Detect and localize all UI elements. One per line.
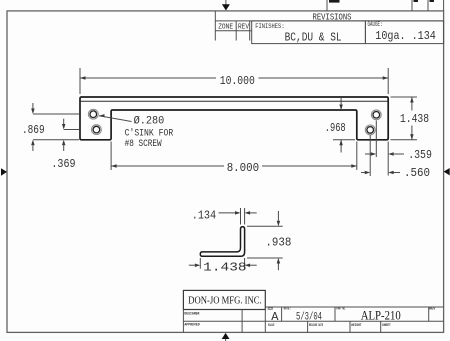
svg-text:8.000: 8.000 xyxy=(227,161,259,175)
countersunk hole right bottom xyxy=(365,125,375,135)
dimension 8.000 xyxy=(111,142,357,171)
dimension .560 right xyxy=(361,135,400,176)
svg-text:Ø.280: Ø.280 xyxy=(134,115,165,127)
svg-text:SHEET: SHEET xyxy=(382,324,391,328)
svg-text:DESIGNER: DESIGNER xyxy=(184,313,199,317)
dimension .869 left xyxy=(33,103,79,151)
right fold mark xyxy=(444,168,450,175)
svg-text:.359: .359 xyxy=(408,148,432,162)
svg-text:PART NO.: PART NO. xyxy=(336,307,346,311)
svg-text:A: A xyxy=(271,310,279,324)
svg-text:5/3/04: 5/3/04 xyxy=(296,311,322,323)
countersunk hole left bottom xyxy=(92,125,102,135)
svg-text:.968: .968 xyxy=(325,121,346,135)
svg-text:10ga. .134: 10ga. .134 xyxy=(375,29,436,43)
bottom fold mark xyxy=(222,333,230,341)
svg-text:GAUGE:: GAUGE: xyxy=(368,21,383,28)
countersunk hole left top xyxy=(88,109,98,119)
pull plate outline (front view) xyxy=(80,97,388,140)
svg-text:1.438: 1.438 xyxy=(203,260,246,274)
svg-text:RELEASE DATE: RELEASE DATE xyxy=(309,324,323,328)
svg-text:DATE:: DATE: xyxy=(284,307,291,311)
left fold mark xyxy=(1,168,7,176)
dimension 1.438 section xyxy=(189,258,257,269)
svg-text:.560: .560 xyxy=(404,166,430,180)
dimension .134 section xyxy=(219,208,257,225)
svg-text:.369: .369 xyxy=(51,157,75,171)
svg-text:ALP-210: ALP-210 xyxy=(361,309,401,323)
svg-text:C'SINK FOR: C'SINK FOR xyxy=(125,128,174,140)
top fold mark xyxy=(222,0,230,11)
svg-text:WEIGHT: WEIGHT xyxy=(351,324,362,328)
revisions header row xyxy=(215,11,443,41)
size/date/part row xyxy=(265,307,443,321)
designer/approved rows xyxy=(183,310,265,333)
svg-text:REV: REV xyxy=(238,23,250,31)
svg-text:.869: .869 xyxy=(22,123,45,137)
svg-text:1.438: 1.438 xyxy=(400,112,429,126)
svg-text:BC,DU & SL: BC,DU & SL xyxy=(285,31,342,45)
svg-text:REV: REV xyxy=(429,307,436,311)
svg-text:10.000: 10.000 xyxy=(220,74,255,88)
svg-text:ZONE: ZONE xyxy=(218,23,233,31)
zone cell xyxy=(215,21,251,41)
svg-text:DON-JO MFG. INC.: DON-JO MFG. INC. xyxy=(188,294,262,306)
revision history partial row (cut off at top edge) xyxy=(327,0,444,11)
bottom row cells xyxy=(308,321,381,332)
svg-text:.134: .134 xyxy=(192,208,217,222)
dimension .968 xyxy=(333,97,355,152)
svg-text:FINISHES:: FINISHES: xyxy=(255,23,284,30)
finishes box xyxy=(252,21,366,44)
dimension .369 left xyxy=(64,119,79,151)
hole callout leader xyxy=(99,114,132,121)
company name box xyxy=(183,290,265,309)
dimension 1.438 right xyxy=(391,97,418,140)
gauge box xyxy=(365,21,443,44)
svg-text:#8 SCREW: #8 SCREW xyxy=(125,139,162,150)
bend line xyxy=(81,100,388,102)
L cross-section profile xyxy=(200,227,244,256)
dimension .359 right xyxy=(365,121,404,176)
svg-text:.938: .938 xyxy=(265,235,291,249)
svg-text:APPROVED: APPROVED xyxy=(184,323,200,327)
dimension 10.000 xyxy=(80,68,388,94)
countersunk hole right top xyxy=(371,110,381,120)
dimension .938 section xyxy=(247,211,283,270)
svg-text:SCALE: SCALE xyxy=(268,324,275,328)
